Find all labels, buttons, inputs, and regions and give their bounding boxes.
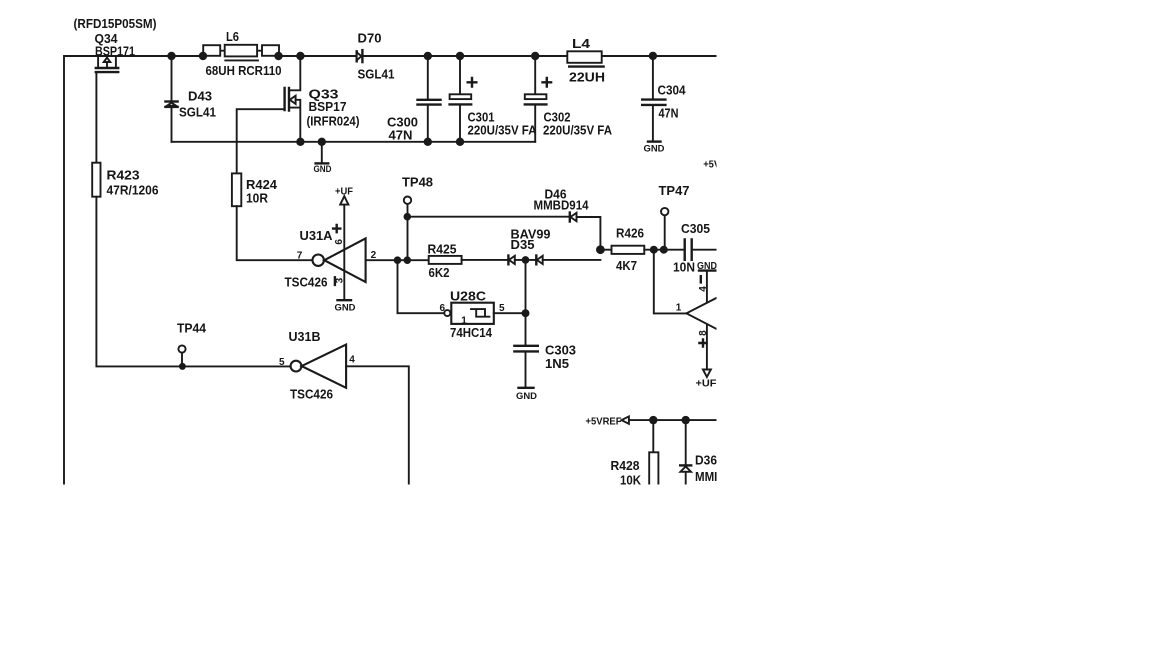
wire +5VREF rail [629, 419, 716, 421]
testpoint TP47 [659, 183, 690, 250]
svg-text:GND: GND [516, 391, 537, 402]
node D43 top [167, 52, 175, 60]
diode D70 SGL41 [357, 30, 395, 81]
svg-text:MMBD914: MMBD914 [534, 197, 590, 212]
svg-text:+UF: +UF [696, 379, 717, 390]
diode D43 SGL41 (schottky) [165, 56, 216, 142]
capacitor C305 10N [673, 221, 716, 275]
node TP48 junction upper [404, 213, 412, 221]
svg-text:5: 5 [279, 357, 285, 368]
svg-text:TP47: TP47 [659, 183, 690, 198]
svg-text:SGL41: SGL41 [179, 105, 216, 120]
svg-text:TSC426: TSC426 [290, 386, 333, 401]
wire TP48 to D46 [407, 216, 569, 218]
svg-text:R428: R428 [611, 458, 640, 473]
inductor L4 22UH [567, 36, 605, 85]
wire D46 to R426 node [577, 217, 601, 250]
node R426 right junction [650, 246, 658, 254]
pin 8 label rotated [698, 330, 709, 347]
svg-text:U31B: U31B [289, 329, 321, 344]
svg-text:47N: 47N [389, 128, 413, 143]
testpoint TP44 [177, 320, 207, 366]
wire pin4 to op-amp [706, 271, 708, 303]
svg-text:1N5: 1N5 [545, 356, 569, 371]
svg-text:6: 6 [334, 239, 345, 245]
svg-text:5: 5 [499, 303, 505, 314]
capacitor C302 220U/35V FA (polar) [525, 56, 613, 142]
capacitor C304 47N [642, 56, 686, 141]
svg-text:6: 6 [440, 303, 446, 314]
node Q33 drain on rail [296, 52, 304, 60]
svg-text:D70: D70 [358, 30, 382, 45]
svg-text:C305: C305 [681, 221, 710, 236]
node D36 top [682, 416, 690, 424]
op-amp U31B TSC426 driver [279, 329, 355, 401]
node C302 top [531, 52, 539, 60]
wire R424 to U31A input [237, 206, 313, 260]
wire R425 to BAV99 [462, 259, 509, 261]
node GND stub on rail [318, 138, 326, 146]
node Q33 source on ground rail [296, 138, 304, 146]
svg-text:4: 4 [698, 286, 709, 292]
svg-text:GND: GND [644, 143, 665, 154]
wire U31A out to U28C [398, 260, 444, 313]
inverter U28C 74HC14 [440, 288, 506, 339]
wire U31A output [366, 259, 429, 261]
node C301 top [456, 52, 464, 60]
svg-text:220U/35V FA: 220U/35V FA [543, 122, 613, 137]
wire Q33 gate to R424 [237, 109, 285, 173]
wire BAV99 to corner [543, 259, 601, 261]
ground below Q33 [314, 142, 332, 175]
svg-text:47R/1206: 47R/1206 [107, 183, 159, 198]
node L6 right [274, 52, 282, 60]
capacitor C301 220U/35V FA (polar) [450, 56, 537, 142]
svg-text:220U/35V FA: 220U/35V FA [468, 122, 538, 137]
node TP48 junction lower [404, 256, 412, 264]
ground below C304 [644, 142, 665, 155]
transistor Q34 (RFD15P05SM) BSP171 [74, 16, 157, 72]
svg-text:R423: R423 [107, 168, 140, 183]
wire bottom ground rail [172, 141, 536, 143]
resistor R425 6K2 [428, 241, 462, 279]
svg-text:TP44: TP44 [177, 320, 207, 335]
svg-text:GND: GND [335, 302, 356, 313]
wire R423 to U31B input [96, 197, 291, 367]
capacitor C300 47N [387, 56, 441, 143]
node U28C out junction [522, 309, 530, 317]
svg-text:10N: 10N [673, 259, 695, 274]
net +UF arrow down [696, 370, 717, 390]
svg-text:U31A: U31A [300, 228, 334, 243]
svg-text:6K2: 6K2 [429, 265, 450, 280]
svg-text:D43: D43 [188, 89, 212, 104]
svg-text:D35: D35 [511, 237, 535, 252]
svg-text:74HC14: 74HC14 [450, 325, 493, 340]
svg-text:D36: D36 [695, 452, 717, 467]
testpoint TP48 [402, 174, 433, 260]
svg-text:4: 4 [349, 354, 355, 365]
diode D35 BAV99 (pair) [508, 226, 550, 264]
net +5VREF arrow [586, 416, 629, 427]
svg-text:3: 3 [335, 277, 346, 283]
op-amp U29 (clipped) [686, 290, 731, 336]
svg-text:SGL41: SGL41 [358, 66, 395, 81]
wire junction to op-amp pin 1 [654, 250, 686, 314]
svg-text:R425: R425 [428, 241, 457, 256]
ground at op-amp pin 4 [697, 261, 717, 272]
svg-text:(RFD15P05SM): (RFD15P05SM) [74, 16, 157, 31]
resistor R428 10K [611, 420, 659, 492]
node L6 left [199, 52, 207, 60]
svg-text:GND: GND [314, 164, 332, 175]
node C300 bottom [424, 138, 432, 146]
ground below U31A [335, 300, 356, 313]
resistor R424 10R [232, 173, 278, 206]
svg-text:C304: C304 [658, 82, 687, 97]
wire U28C output [494, 312, 526, 314]
svg-text:L4: L4 [572, 36, 591, 51]
op-amp U31A TSC426 driver [285, 186, 377, 299]
svg-text:TSC426: TSC426 [285, 274, 328, 289]
svg-text:BSP171: BSP171 [95, 43, 135, 58]
resistor R426 4K7 [600, 225, 683, 272]
node R426 left junction [596, 245, 605, 254]
node R428 top [649, 416, 657, 424]
svg-text:L6: L6 [226, 29, 239, 44]
svg-text:+5VREF: +5VREF [586, 416, 622, 427]
svg-text:47N: 47N [659, 106, 679, 121]
svg-text:TP48: TP48 [402, 174, 433, 189]
wire left rail and left vertical [64, 56, 172, 490]
wire op-amp pin 8 to +UF [706, 325, 708, 370]
svg-text:U28C: U28C [450, 288, 487, 303]
svg-text:10R: 10R [246, 190, 269, 205]
diode D36 MMBD914 [680, 420, 750, 490]
svg-text:22UH: 22UH [569, 69, 605, 84]
node TP47 junction [660, 246, 668, 254]
node BAV99 mid junction [522, 256, 530, 264]
node output junction [394, 256, 402, 264]
inductor L6 68UH RCR110 [203, 29, 281, 78]
pin 4 label rotated [698, 276, 709, 292]
capacitor C303 1N5 [514, 342, 576, 387]
ground below C303 [516, 388, 537, 402]
svg-text:1: 1 [676, 302, 682, 313]
node C301 bottom [456, 138, 464, 146]
svg-text:R426: R426 [616, 225, 644, 240]
node C304 top [649, 52, 657, 60]
svg-text:+UF: +UF [335, 186, 353, 197]
wire Q34 gate to R423 [95, 73, 97, 163]
node C300 top [424, 52, 432, 60]
svg-text:(IRFR024): (IRFR024) [307, 114, 360, 129]
svg-text:BSP17: BSP17 [309, 99, 347, 114]
svg-text:68UH RCR110: 68UH RCR110 [206, 63, 282, 78]
transistor Q33 BSP17 (IRFR024) [285, 56, 360, 142]
wire BAV99 node to C303 [525, 260, 527, 345]
wire top rail [172, 55, 716, 57]
svg-text:4K7: 4K7 [616, 258, 637, 273]
svg-text:7: 7 [297, 251, 303, 262]
resistor R423 47R/1206 [92, 163, 158, 198]
diode D46 MMBD914 [534, 186, 590, 221]
node TP44 junction [179, 363, 186, 370]
wire U31B output [346, 366, 409, 490]
